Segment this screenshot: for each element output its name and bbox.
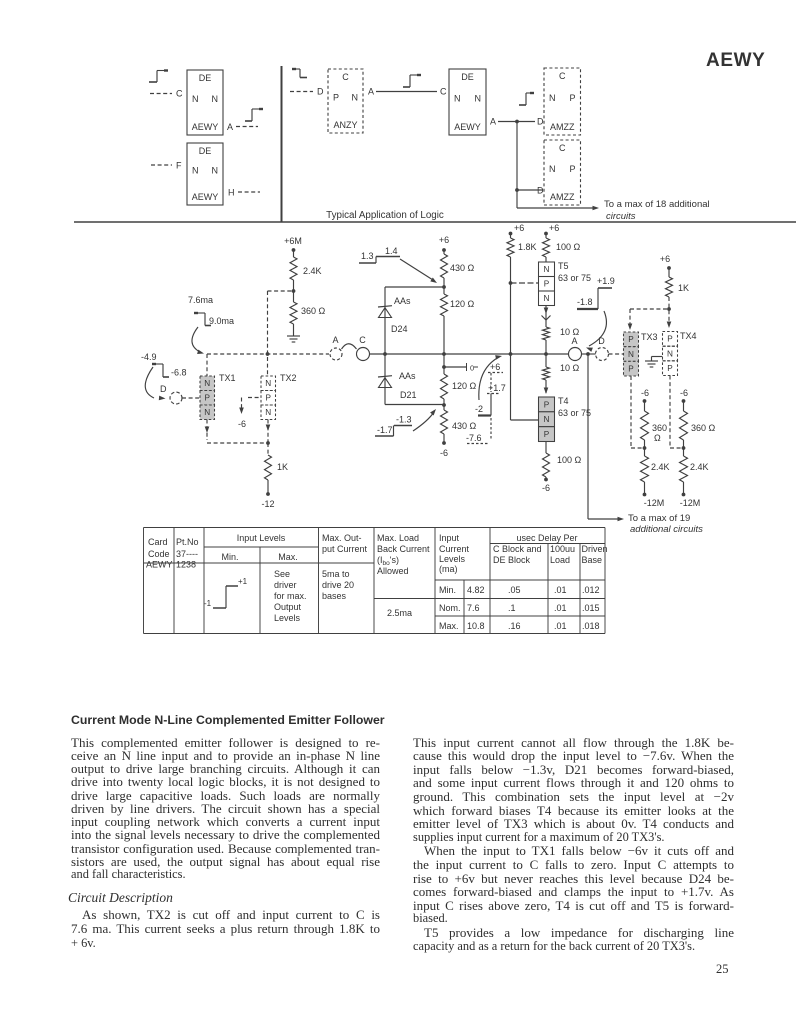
svg-text:-1.3: -1.3 (396, 415, 412, 425)
svg-text:Output: Output (274, 602, 302, 612)
svg-text:C: C (559, 143, 566, 153)
svg-text:A: A (490, 117, 496, 127)
svg-text:2.4K: 2.4K (690, 462, 709, 472)
svg-text:10 Ω: 10 Ω (560, 363, 580, 373)
svg-text:-12M: -12M (680, 498, 701, 508)
svg-text:N: N (212, 166, 219, 176)
svg-text:-1.7: -1.7 (377, 425, 393, 435)
svg-text:bases: bases (322, 591, 347, 601)
svg-text:.01: .01 (554, 621, 567, 631)
svg-text:Nom.: Nom. (439, 603, 461, 613)
svg-text:C: C (440, 87, 447, 97)
svg-text:N: N (475, 94, 482, 104)
svg-text:100 Ω: 100 Ω (556, 242, 581, 252)
svg-text:P: P (667, 364, 673, 373)
svg-text:D24: D24 (391, 324, 408, 334)
svg-text:1K: 1K (678, 283, 689, 293)
svg-text:Levels: Levels (439, 554, 466, 564)
svg-text:-6: -6 (238, 419, 246, 429)
svg-text:100uu: 100uu (550, 544, 575, 554)
svg-text:1.8K: 1.8K (518, 242, 537, 252)
svg-text:360 Ω: 360 Ω (301, 306, 326, 316)
svg-text:additional circuits: additional circuits (630, 524, 703, 535)
svg-text:Min.: Min. (439, 585, 456, 595)
svg-text:N: N (352, 93, 359, 103)
svg-text:Max. Load: Max. Load (377, 533, 419, 543)
svg-text:Ω: Ω (654, 433, 661, 443)
svg-text:A: A (227, 122, 233, 132)
svg-text:N: N (192, 166, 199, 176)
svg-text:360: 360 (652, 423, 667, 433)
svg-text:usec Delay Per: usec Delay Per (516, 533, 577, 543)
svg-text:.05: .05 (508, 585, 521, 595)
svg-text:C: C (359, 335, 366, 345)
svg-text:Typical Application of Logic: Typical Application of Logic (326, 210, 444, 221)
svg-text:To a max of 18 additional: To a max of 18 additional (604, 199, 710, 210)
svg-text:N: N (544, 294, 550, 303)
svg-text:P: P (266, 394, 272, 403)
svg-text:37----: 37---- (176, 549, 198, 559)
svg-text:2.4K: 2.4K (303, 266, 322, 276)
svg-text:C: C (559, 71, 566, 81)
svg-text:Input: Input (439, 533, 460, 543)
svg-text:DE Block: DE Block (493, 555, 531, 565)
svg-text:63 or 75: 63 or 75 (558, 408, 591, 418)
svg-text:Max. Out-: Max. Out- (322, 533, 362, 543)
svg-text:H: H (228, 188, 235, 198)
svg-text:-6: -6 (641, 388, 649, 398)
svg-text:7.6: 7.6 (467, 603, 480, 613)
svg-text:+6: +6 (439, 235, 449, 245)
svg-text:AEWY: AEWY (192, 122, 219, 132)
svg-text:TX2: TX2 (280, 373, 297, 383)
svg-text:4.82: 4.82 (467, 585, 485, 595)
svg-text:A: A (571, 336, 577, 346)
svg-text:1.3: 1.3 (361, 251, 374, 261)
svg-text:AMZZ: AMZZ (550, 122, 575, 132)
svg-text:N: N (265, 408, 271, 417)
svg-text:See: See (274, 569, 290, 579)
svg-text:-2: -2 (475, 404, 483, 414)
svg-text:P: P (628, 365, 634, 374)
svg-text:Min.: Min. (221, 552, 238, 562)
svg-text:120 Ω: 120 Ω (450, 299, 475, 309)
svg-text:N: N (204, 408, 210, 417)
svg-text:A: A (332, 335, 338, 345)
svg-text:ANZY: ANZY (333, 120, 357, 130)
svg-text:Load: Load (550, 555, 570, 565)
svg-text:.012: .012 (582, 585, 600, 595)
svg-text:430 Ω: 430 Ω (452, 421, 477, 431)
svg-text:P: P (667, 335, 673, 344)
svg-text:D21: D21 (400, 390, 417, 400)
svg-text:AAs: AAs (394, 296, 411, 306)
svg-text:63 or 75: 63 or 75 (558, 273, 591, 283)
svg-text:A: A (368, 87, 374, 97)
svg-text:N: N (212, 94, 219, 104)
svg-text:T4: T4 (558, 396, 569, 406)
svg-text:DE: DE (461, 72, 474, 82)
svg-text:TX3: TX3 (641, 332, 658, 342)
svg-text:Pt.No: Pt.No (176, 537, 199, 547)
svg-text:N: N (204, 379, 210, 388)
svg-text:drive 20: drive 20 (322, 580, 354, 590)
svg-text:N: N (544, 265, 550, 274)
svg-text:2.5ma: 2.5ma (387, 608, 412, 618)
svg-text:circuits: circuits (606, 211, 636, 222)
svg-text:(ma): (ma) (439, 564, 458, 574)
svg-text:P: P (333, 93, 339, 103)
svg-text:D: D (537, 117, 544, 127)
svg-text:P: P (205, 394, 211, 403)
svg-text:AEWY: AEWY (192, 192, 219, 202)
svg-text:-6.8: -6.8 (171, 368, 187, 378)
svg-text:+6: +6 (490, 362, 500, 372)
svg-text:-6: -6 (542, 483, 550, 493)
svg-text:.1: .1 (508, 603, 516, 613)
svg-text:P: P (569, 164, 575, 174)
svg-text:.015: .015 (582, 603, 600, 613)
svg-text:10.8: 10.8 (467, 621, 485, 631)
svg-text:N: N (544, 415, 550, 424)
svg-text:-6: -6 (680, 388, 688, 398)
svg-text:1.4: 1.4 (385, 246, 398, 256)
svg-text:Back Current: Back Current (377, 544, 430, 554)
svg-text:-4.9: -4.9 (141, 352, 157, 362)
svg-text:AAs: AAs (399, 371, 416, 381)
svg-text:C: C (176, 89, 183, 99)
svg-text:+1: +1 (238, 577, 248, 586)
svg-text:.018: .018 (582, 621, 600, 631)
svg-text:DE: DE (199, 146, 212, 156)
svg-text:P: P (544, 280, 550, 289)
svg-text:Current: Current (439, 544, 470, 554)
svg-text:Base: Base (582, 555, 603, 565)
svg-text:N: N (667, 349, 673, 358)
svg-text:+6: +6 (514, 223, 524, 233)
svg-text:360 Ω: 360 Ω (691, 423, 716, 433)
svg-text:-12M: -12M (644, 498, 665, 508)
svg-text:1238: 1238 (176, 560, 196, 570)
svg-text:Max.: Max. (439, 621, 459, 631)
svg-text:2.4K: 2.4K (651, 462, 670, 472)
svg-text:P: P (569, 93, 575, 103)
svg-text:1K: 1K (277, 462, 288, 472)
svg-text:5ma to: 5ma to (322, 569, 350, 579)
svg-text:To a max of 19: To a max of 19 (628, 513, 690, 524)
svg-text:100 Ω: 100 Ω (557, 455, 582, 465)
svg-text:.01: .01 (554, 585, 567, 595)
svg-text:Input Levels: Input Levels (237, 533, 286, 543)
svg-text:120 Ω: 120 Ω (452, 381, 477, 391)
svg-text:C: C (342, 72, 349, 82)
svg-text:TX4: TX4 (680, 331, 697, 341)
svg-text:C Block and: C Block and (493, 544, 542, 554)
svg-text:N: N (454, 94, 461, 104)
svg-text:P: P (628, 335, 634, 344)
svg-text:P: P (544, 400, 550, 409)
svg-text:0: 0 (470, 364, 474, 373)
svg-text:AMZZ: AMZZ (550, 192, 575, 202)
svg-text:N: N (192, 94, 199, 104)
svg-text:D: D (317, 87, 324, 97)
svg-text:Max.: Max. (278, 552, 298, 562)
svg-text:+6: +6 (549, 223, 559, 233)
svg-text:-1: -1 (204, 599, 212, 608)
svg-text:DE: DE (199, 73, 212, 83)
svg-text:+6M: +6M (284, 236, 302, 246)
svg-text:N: N (549, 93, 556, 103)
svg-text:+1.9: +1.9 (597, 276, 615, 286)
svg-text:for max.: for max. (274, 591, 307, 601)
svg-text:TX1: TX1 (219, 373, 236, 383)
svg-text:+6: +6 (660, 254, 670, 264)
svg-text:-6: -6 (440, 448, 448, 458)
svg-text:-1.8: -1.8 (577, 297, 593, 307)
svg-text:Levels: Levels (274, 613, 301, 623)
svg-text:430 Ω: 430 Ω (450, 263, 475, 273)
svg-text:-12: -12 (261, 499, 274, 509)
svg-text:T5: T5 (558, 261, 569, 271)
svg-text:N: N (265, 379, 271, 388)
svg-text:driver: driver (274, 580, 297, 590)
svg-text:7.6ma: 7.6ma (188, 295, 213, 305)
svg-text:.01: .01 (554, 603, 567, 613)
svg-text:AEWY: AEWY (146, 560, 173, 570)
svg-text:put Current: put Current (322, 544, 368, 554)
svg-text:Driven: Driven (582, 544, 608, 554)
svg-text:P: P (544, 430, 550, 439)
svg-text:.16: .16 (508, 621, 521, 631)
svg-text:F: F (176, 161, 182, 171)
svg-text:N: N (628, 350, 634, 359)
svg-text:N: N (549, 164, 556, 174)
svg-text:Code: Code (148, 549, 170, 559)
svg-text:D: D (598, 336, 605, 346)
svg-text:Card: Card (148, 537, 168, 547)
svg-text:Allowed: Allowed (377, 566, 409, 576)
svg-text:AEWY: AEWY (706, 50, 765, 71)
svg-text:-7.6: -7.6 (466, 433, 482, 443)
svg-text:D: D (160, 384, 167, 394)
svg-text:AEWY: AEWY (454, 122, 481, 132)
svg-text:9.0ma: 9.0ma (209, 316, 234, 326)
